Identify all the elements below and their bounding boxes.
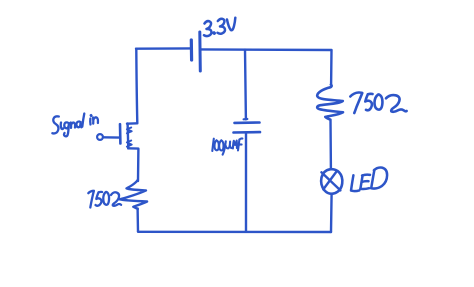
wire left branch vertical <box>136 49 137 123</box>
label 750 ohm left <box>88 191 121 208</box>
transistor Q1 arrow top <box>127 128 132 134</box>
label LED <box>351 167 387 191</box>
wire gate lead <box>103 136 119 139</box>
label Signal in <box>52 114 98 137</box>
wire bottom rail <box>138 231 331 234</box>
wire top rail right <box>200 48 331 51</box>
resistor R1 left 750 ohm <box>120 180 148 209</box>
label 3.3V <box>204 18 235 36</box>
LED D1 cross stroke 2 <box>323 171 336 189</box>
wire drain jog <box>127 122 137 125</box>
label 100uF <box>212 138 242 154</box>
battery B1 <box>191 32 200 71</box>
LED D1 cross stroke 1 <box>321 172 340 190</box>
wire capacitor branch bottom <box>245 133 247 232</box>
wire between R2 and LED <box>329 120 332 168</box>
capacitor C1 top plate <box>235 121 260 124</box>
signal input terminal <box>97 134 103 140</box>
wire source lead <box>128 148 138 181</box>
transistor Q1 gate bar <box>119 124 122 143</box>
wire below LED <box>330 194 333 232</box>
label 750 ohm right <box>350 92 406 113</box>
resistor R2 right 750 ohm <box>317 85 343 120</box>
capacitor C1 bottom plate <box>234 131 261 134</box>
transistor Q1 arrow bottom <box>127 141 132 147</box>
wire below R1 <box>136 209 139 232</box>
transistor Q1 channel <box>126 123 129 148</box>
wire right branch top <box>330 50 333 84</box>
cap wire end tick <box>244 118 248 121</box>
wire capacitor branch top <box>244 50 247 120</box>
LED D1 lamp circle <box>321 169 342 194</box>
wire top rail left <box>136 47 190 50</box>
